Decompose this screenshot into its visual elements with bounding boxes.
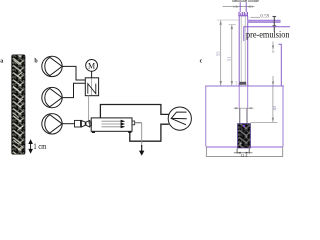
- svg-text:a: a: [0, 58, 3, 64]
- svg-text:6: 6: [272, 49, 275, 54]
- svg-text:5: 5: [235, 81, 237, 86]
- left extension tick: [217, 19, 240, 21]
- outlet arrow: [139, 145, 144, 156]
- svg-text:43: 43: [272, 105, 277, 110]
- module internal flow lines with arrows: [102, 121, 122, 127]
- membrane block (braided element): [238, 124, 251, 149]
- tube lower part (dark): [240, 108, 247, 123]
- 0.59 leader and label: [251, 16, 261, 18]
- motor M: [86, 60, 98, 72]
- 1 cm scale arrow: [29, 140, 32, 153]
- tube width dimension inside vessel: [234, 107, 254, 109]
- shaft M to homogenizer: [91, 71, 93, 78]
- wire pump2 to homogenizer: [62, 83, 85, 97]
- pre-emulsion label box: [244, 27, 290, 41]
- liquid level line: [206, 146, 282, 148]
- svg-text:55: 55: [215, 51, 220, 56]
- outer tube inside vessel: [239, 86, 248, 108]
- bottom width dimension 12.4: [234, 148, 253, 158]
- wire pump3 to valve: [62, 123, 74, 125]
- svg-text:b: b: [34, 58, 38, 64]
- homogenizer box N: [85, 78, 98, 96]
- top width dimension line: [223, 6, 255, 8]
- outer container lower walls: [206, 147, 282, 157]
- inner tube walls: [241, 16, 245, 86]
- svg-text:c: c: [200, 59, 203, 65]
- pump P1: [42, 56, 62, 76]
- svg-text:1 cm: 1 cm: [33, 142, 46, 151]
- pipe module top to fan circle: [100, 105, 168, 118]
- pump P3: [42, 114, 62, 134]
- svg-text:M: M: [88, 61, 95, 70]
- svg-text:pre-emulsion: pre-emulsion: [246, 29, 290, 40]
- vessel outline: [205, 86, 284, 147]
- product outlet line: [135, 122, 142, 124]
- extension line from block top to right dim: [251, 121, 278, 123]
- fan/pump circle: [168, 107, 191, 130]
- left dimension line 2: [229, 24, 237, 26]
- svg-text:12.4: 12.4: [240, 153, 248, 158]
- svg-text:51: 51: [227, 56, 232, 61]
- dimension tick crossing feed pipe: [273, 17, 277, 32]
- pump P2: [42, 87, 62, 107]
- fitting / connector: [239, 12, 247, 16]
- outer tube walls: [239, 16, 248, 86]
- membrane module vessel: [90, 118, 135, 133]
- bowtie valve: [81, 120, 89, 127]
- rope photo (braided cord sample): [12, 55, 25, 154]
- capillary above fitting: [240, 2, 246, 12]
- inline square fitting: [75, 120, 81, 127]
- right dimension line lower (43): [272, 86, 274, 122]
- right dimension line upper: [272, 42, 274, 50]
- pipe homogenizer down to module: [88, 96, 90, 124]
- left dimension line 1: [220, 20, 222, 85]
- pipe fan circle back to module bottom: [130, 124, 169, 141]
- wire pump1 to homogenizer: [62, 66, 85, 80]
- collar nut on vessel top: [239, 82, 246, 85]
- svg-text:0.59: 0.59: [260, 15, 269, 20]
- feed pipe horizontal to label box: [248, 20, 281, 22]
- feed pipe down to vessel: [279, 44, 282, 86]
